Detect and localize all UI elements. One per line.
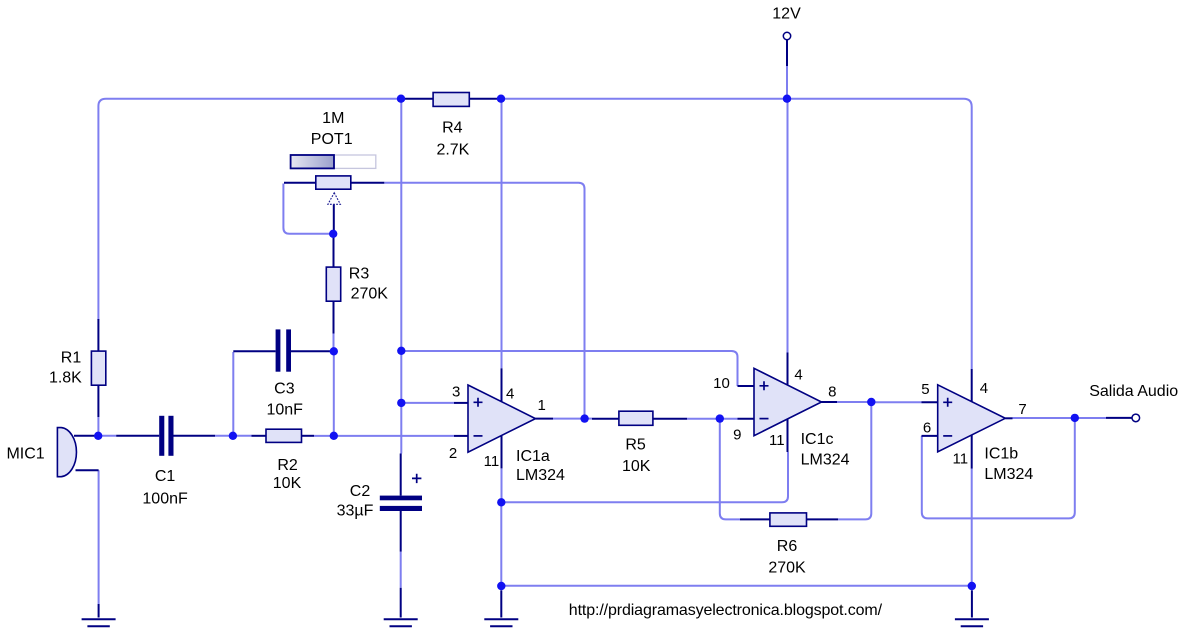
svg-text:R3: R3 <box>349 266 370 283</box>
lead R2 left <box>252 435 267 437</box>
svg-text:2.7K: 2.7K <box>436 142 469 159</box>
lead R1 bottom <box>97 385 99 417</box>
lead MIC1 top <box>74 435 98 437</box>
capacitor C2 polarity plus <box>412 474 421 483</box>
wire IC1b output <box>1013 417 1107 419</box>
svg-text:11: 11 <box>953 450 969 467</box>
svg-text:10K: 10K <box>273 475 302 492</box>
svg-text:4: 4 <box>980 380 988 397</box>
capacitor C2 plate bottom <box>380 506 422 511</box>
wire IC1a output <box>553 418 586 420</box>
lead C2 bottom <box>400 511 402 552</box>
potentiometer POT1 body <box>316 176 351 189</box>
wire IC1a pin11 drop <box>501 469 503 503</box>
svg-text:9: 9 <box>733 427 741 444</box>
lead output terminal <box>1106 417 1132 419</box>
capacitor C3 plate left <box>276 329 281 371</box>
lead POT1 wiper <box>333 204 335 231</box>
svg-text:1M: 1M <box>322 110 344 127</box>
svg-text:100nF: 100nF <box>142 490 188 507</box>
node junction gnd-rail-left <box>497 582 505 590</box>
lead R6 right <box>807 518 839 520</box>
svg-text:R6: R6 <box>777 538 798 555</box>
op-amp IC1a <box>468 385 536 452</box>
wire R1 to mic node <box>97 417 99 436</box>
svg-text:4: 4 <box>506 385 514 402</box>
svg-text:7: 7 <box>1018 401 1026 418</box>
node junction mic <box>94 432 102 440</box>
node junction rail-12V <box>783 95 791 103</box>
wire IC1c output <box>837 401 871 403</box>
svg-text:270K: 270K <box>351 286 389 303</box>
lead MIC1 bottom <box>76 469 99 471</box>
svg-text:12V: 12V <box>772 6 801 23</box>
wire gnd net drop <box>500 502 502 586</box>
lead IC1a output <box>536 418 554 420</box>
svg-text:MIC1: MIC1 <box>6 446 44 463</box>
lead IC1a pin3 <box>454 402 468 404</box>
node junction IC1b-out <box>1071 414 1079 422</box>
lead C3 right <box>291 350 334 352</box>
lead POT1 right <box>351 182 385 184</box>
wire R3 bottom link <box>333 334 335 352</box>
lead C1 right <box>174 435 216 437</box>
svg-text:IC1c: IC1c <box>801 431 834 448</box>
lead IC1c pin9 <box>738 418 755 420</box>
svg-text:1.8K: 1.8K <box>49 370 82 387</box>
svg-text:11: 11 <box>769 432 785 449</box>
lead IC1b pin5 <box>922 401 938 403</box>
node junction IC1c-out <box>867 398 875 406</box>
lead R2 right <box>302 435 315 437</box>
ground rail-right <box>955 619 989 626</box>
potentiometer POT1 slider fill <box>291 155 334 168</box>
resistor R2 <box>266 429 302 442</box>
resistor R4 <box>433 93 469 107</box>
wire pot left <box>283 184 331 234</box>
svg-text:IC1b: IC1b <box>984 446 1018 463</box>
ground rail-left <box>484 619 518 626</box>
wire bias rail top-left <box>98 99 401 320</box>
ground C2 <box>384 619 418 626</box>
wire R2 to IC1a pin2 <box>314 435 454 437</box>
svg-text:LM324: LM324 <box>801 452 850 469</box>
wire IC1b feedback loop <box>922 418 1075 519</box>
lead 12V terminal <box>786 40 788 66</box>
node junction rail-bias <box>397 95 405 103</box>
wire bias vertical <box>400 99 402 454</box>
resistor R5 <box>619 411 653 425</box>
svg-text:POT1: POT1 <box>311 131 353 148</box>
lead R1 top <box>97 319 99 351</box>
node junction C3-R3 <box>330 347 338 355</box>
wire IC1a pin4 drop <box>501 99 503 369</box>
node junction gnd-pin11 <box>497 498 505 506</box>
svg-text:2: 2 <box>449 445 457 462</box>
lead ground mic <box>98 604 100 618</box>
wire bottom rail <box>501 585 972 587</box>
node junction rail-IC1a-pin4 <box>497 95 505 103</box>
svg-text:6: 6 <box>923 419 931 436</box>
wire mic node to C1 <box>98 435 116 437</box>
capacitor C1 plate left <box>159 416 164 456</box>
svg-text:4: 4 <box>794 366 802 383</box>
node junction IC1a-out <box>580 414 588 422</box>
svg-text:R5: R5 <box>625 437 646 454</box>
svg-text:LM324: LM324 <box>516 467 565 484</box>
lead IC1b pin11 <box>971 435 973 469</box>
svg-text:1: 1 <box>538 397 546 414</box>
svg-text:10: 10 <box>713 375 730 392</box>
wire 12V rail <box>501 99 972 369</box>
svg-text:R4: R4 <box>442 120 463 137</box>
wire C3/R3 node vertical <box>333 351 335 436</box>
capacitor C3 plate right <box>286 329 291 371</box>
svg-text:R2: R2 <box>277 457 298 474</box>
lead POT1 left <box>284 182 316 184</box>
lead IC1a pin11 <box>501 436 503 469</box>
wire R5 right <box>687 418 738 420</box>
wire R6 to IC1c pin9 <box>720 419 740 520</box>
terminal Salida Audio <box>1132 414 1140 422</box>
wire bias to IC1c pin10 <box>401 351 737 386</box>
svg-text:270K: 270K <box>768 560 806 577</box>
node junction R5-IC1c-pin9 <box>716 414 724 422</box>
wire C2 ground link <box>400 552 402 588</box>
lead IC1a pin4 <box>501 368 503 402</box>
svg-text:3: 3 <box>452 383 460 400</box>
potentiometer POT1 slider track <box>291 155 376 168</box>
op-amp IC1c minus sign <box>760 418 769 420</box>
terminal 12V <box>783 32 790 39</box>
lead R3 top <box>333 236 335 267</box>
wire IC1c out to IC1b pin5 <box>871 401 921 403</box>
svg-text:8: 8 <box>828 384 836 401</box>
op-amp IC1a plus sign <box>474 398 483 407</box>
lead C3 left <box>233 350 275 352</box>
wire IC1b pin11 drop <box>971 469 973 586</box>
lead IC1b pin6 <box>922 435 938 437</box>
microphone MIC1 <box>57 428 76 477</box>
svg-text:11: 11 <box>484 453 500 470</box>
resistor R1 <box>91 351 105 385</box>
op-amp IC1c <box>754 368 822 435</box>
lead IC1c pin4 <box>787 353 789 386</box>
svg-text:R1: R1 <box>61 349 82 366</box>
svg-text:http://prdiagramasyelectronica: http://prdiagramasyelectronica.blogspot.… <box>569 602 883 619</box>
capacitor C2 plate top <box>380 496 422 501</box>
lead R3 bottom <box>333 301 335 333</box>
resistor R3 <box>326 267 340 301</box>
wire IC1c pin4 drop <box>787 99 789 353</box>
node junction pot-wiper <box>329 230 337 238</box>
lead ground C2 <box>400 588 402 618</box>
svg-text:LM324: LM324 <box>984 466 1033 483</box>
wire R5 left <box>585 418 592 420</box>
svg-text:5: 5 <box>921 381 929 398</box>
svg-text:C2: C2 <box>350 483 371 500</box>
wire IC1c output to R6 <box>838 402 871 519</box>
lead ground rail-right <box>971 590 973 617</box>
capacitor C1 plate right <box>168 416 173 456</box>
node junction gnd-rail-right <box>968 582 976 590</box>
svg-text:IC1a: IC1a <box>516 448 550 465</box>
op-amp IC1b plus sign <box>943 398 952 407</box>
svg-text:Salida Audio: Salida Audio <box>1089 383 1178 400</box>
wire IC1a pin3 stub <box>401 402 454 404</box>
op-amp IC1a minus sign <box>474 435 483 437</box>
wire gnd net to IC1c pin11 <box>501 452 788 502</box>
svg-text:10K: 10K <box>622 458 651 475</box>
lead R5 left <box>592 418 619 420</box>
wire mic ground drop <box>98 470 100 604</box>
resistor R6 <box>770 513 807 526</box>
lead R4 right <box>469 98 501 100</box>
svg-text:33µF: 33µF <box>337 503 374 520</box>
lead ground rail-left <box>500 590 502 617</box>
op-amp IC1b minus sign <box>943 435 952 437</box>
lead R4 left <box>401 98 433 100</box>
lead IC1c output <box>822 401 838 403</box>
svg-text:C1: C1 <box>155 468 176 485</box>
wire node to R2 <box>233 435 252 437</box>
lead C2 top <box>400 454 402 496</box>
op-amp IC1c plus sign <box>760 381 769 390</box>
node junction bias-pin3 <box>397 399 405 407</box>
ground mic <box>82 619 116 626</box>
wire C1 to node <box>215 435 233 437</box>
wire 12V terminal drop <box>786 66 788 99</box>
lead IC1b output <box>1005 417 1012 419</box>
lead C1 left <box>116 435 159 437</box>
lead IC1a pin2 <box>454 435 468 437</box>
lead IC1c pin11 <box>787 419 789 452</box>
lead R5 right <box>653 418 687 420</box>
lead IC1b pin4 <box>971 369 973 402</box>
svg-text:10nF: 10nF <box>266 402 303 419</box>
lead R6 left <box>740 518 770 520</box>
potentiometer POT1 wiper arrow <box>328 193 341 205</box>
lead IC1c pin10 <box>738 385 755 387</box>
node junction R2-right <box>330 432 338 440</box>
node junction bias-row <box>397 347 405 355</box>
svg-text:C3: C3 <box>274 381 295 398</box>
wire C3 left drop <box>232 352 234 436</box>
op-amp IC1b <box>938 385 1006 452</box>
node junction C1-R2 <box>229 432 237 440</box>
wire pot right to IC1a output <box>384 183 584 419</box>
